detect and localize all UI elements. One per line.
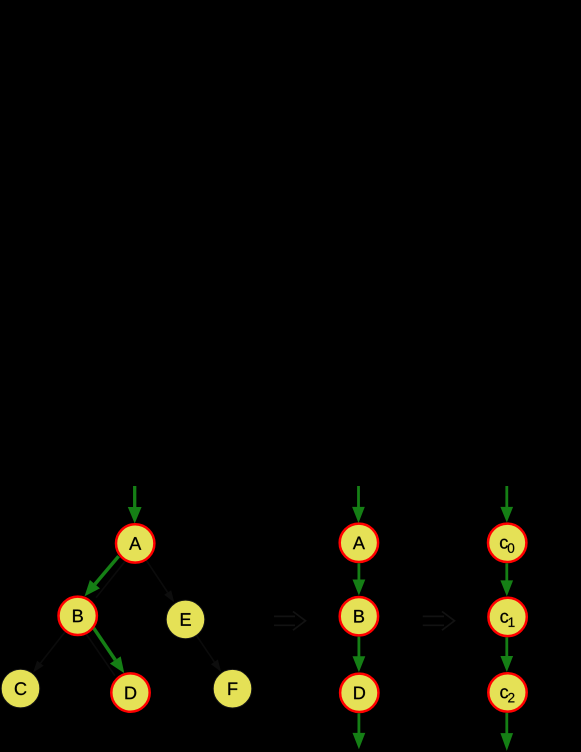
wire: black edge B to C (left tree) with arrowhead — [33, 632, 65, 673]
node c0 (right commit list) — [488, 524, 526, 562]
wire: green exit arrow below middle list node D — [353, 713, 366, 749]
node A (left tree root, highlighted) — [116, 524, 154, 562]
wire: green arrow B to D (middle list) — [353, 637, 366, 673]
wire: green arrow B to D (left tree path) — [94, 628, 125, 674]
wire: green arrow A to B (middle list) — [353, 563, 366, 595]
double arrow (implies) between left tree and middle list — [274, 612, 306, 631]
wire: green entry arrow into left tree root A — [128, 486, 142, 524]
node E (left tree) — [166, 600, 205, 639]
node D (middle list) — [340, 674, 378, 712]
node B (left tree, highlighted) — [58, 597, 96, 635]
wire: black edge A to E (left tree) with arrowhead — [146, 560, 174, 602]
wire: black edge B to D (left tree) — [85, 632, 115, 676]
node C (left tree) — [1, 669, 40, 708]
wire: green arrow c1 to c2 — [500, 637, 513, 672]
node c2 (right commit list) — [488, 673, 526, 711]
wire: black edge A to B (left tree) — [96, 559, 127, 598]
wire: green arrow A to B (left tree path) — [85, 556, 119, 596]
wire: black edge E to F (left tree) with arrowhead — [196, 635, 221, 672]
node A (middle list) — [340, 524, 378, 562]
wire: green entry arrow into right list node c0 — [500, 486, 513, 523]
node F (left tree) — [213, 669, 252, 708]
node D (left tree, highlighted) — [111, 673, 149, 711]
wire: green arrow c0 to c1 — [500, 563, 513, 596]
wire: green entry arrow into middle list node A — [352, 486, 365, 523]
wire: green exit arrow below right list node c2 — [500, 713, 513, 751]
node B (middle list) — [340, 597, 378, 635]
node c1 (right commit list) — [488, 598, 526, 636]
double arrow (implies) between middle list and right commit list — [423, 612, 455, 631]
